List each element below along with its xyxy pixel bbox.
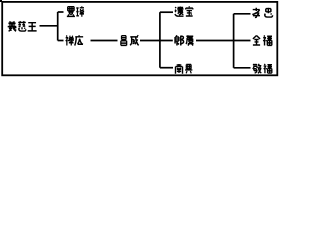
node 南典 [175, 64, 192, 74]
node 豊璋 [67, 6, 84, 16]
wire: 郎虞 to 全福 through bracket3 [196, 40, 251, 42]
node 敬福 [253, 64, 272, 74]
node 昌成 [121, 35, 139, 45]
wire: stub to 遠宝 [160, 11, 173, 13]
wire: 昌成 to 郎虞 through bracket2 [140, 40, 173, 42]
node 遠宝 [175, 6, 193, 16]
outer border frame [2, 2, 277, 75]
wire: stub to 敬福 [234, 67, 251, 69]
node 義慈王 [8, 21, 37, 31]
node 全福 [253, 35, 272, 45]
wire: stub to 豊璋 [58, 11, 64, 13]
node 孝忠 [252, 8, 272, 18]
wire: stub to 孝忠 [234, 13, 251, 15]
wire: bracket1 vertical [57, 12, 59, 41]
wire: 禅広 to 昌成 [91, 40, 118, 42]
wire: stub to 南典 [160, 67, 173, 69]
wire: bracket3 vertical [233, 14, 235, 68]
wire: 義慈王 to bracket1 [40, 25, 58, 27]
wire: stub to 禅広 [58, 40, 64, 42]
wire: bracket2 vertical [159, 12, 161, 67]
corner artifact top-left [0, 0, 2, 2]
node 禅広 [66, 35, 83, 45]
node 郎虞 [175, 35, 194, 45]
